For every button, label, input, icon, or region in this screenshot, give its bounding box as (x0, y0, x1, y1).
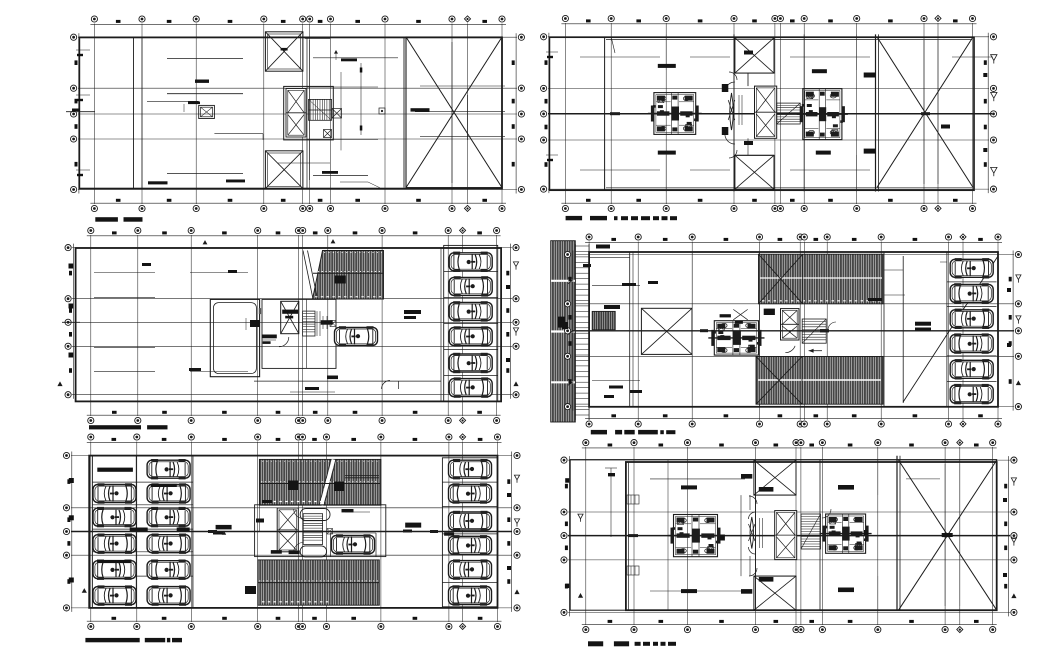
plan 4 door bowtie symbol (733, 309, 747, 323)
plan 5 small x marker (327, 529, 333, 535)
plan 4 interior partitions (630, 252, 947, 407)
plan 2 apartment beam lines (580, 57, 870, 170)
plan 1 top dimension bubbles (90, 16, 506, 24)
plan 6 X-bay label (942, 533, 953, 537)
plan 5 section line heavy (71, 530, 512, 533)
plan 6 lobby door arcs (749, 496, 832, 576)
plan 2 core lobby walls (735, 73, 774, 155)
plan 6 stair diagonal (801, 514, 821, 549)
plan 1 right X-braced open bay (404, 37, 505, 188)
plan 6 bottom core X-box (754, 576, 796, 610)
plan 5 top dimension bubbles (87, 434, 502, 442)
plan 5 upper ramp hatch (259, 459, 381, 505)
plan 4 title bars (591, 430, 676, 435)
plan 5 landing label (342, 509, 371, 512)
plan 1 small X-box lower (324, 130, 332, 138)
plan 4 horizontal grid lines (572, 255, 1014, 407)
plan 2 toilet cluster left (648, 93, 702, 135)
plan 1 left edge level marker 2 (76, 95, 90, 101)
plan 1 bottom elevator/duct X-box (265, 151, 303, 189)
plan 5 right parking stalls (442, 458, 497, 607)
plan 2 core side walls (747, 73, 749, 155)
plan 2 interior partition walls (605, 34, 857, 191)
plan 4 lower-left room lines (592, 381, 642, 399)
plan 4 small hatch block left (592, 305, 620, 330)
plan 5 left dimension bubbles (63, 452, 71, 612)
plan 2 stair treads (777, 103, 801, 124)
plan 6 right dimension bubbles (1004, 456, 1017, 616)
plan 5 left parking stall grid (92, 456, 192, 608)
plan 2 title bars (566, 216, 677, 220)
plan 3 right dimension bubbles (506, 244, 519, 399)
plan 2 stair diagonal (777, 103, 801, 124)
plan 3 stair up-bar (321, 316, 333, 329)
plan 4 strip labels (558, 264, 591, 329)
plan 6 vertical grid lines (586, 447, 993, 625)
plan 6 elevator shafts (775, 511, 797, 560)
plan 1 small X-box landing (332, 109, 342, 119)
plan 6 section line heavy (568, 534, 1010, 537)
plan 5 stair door arcs (294, 509, 304, 552)
plan 6 stair treads (801, 514, 821, 549)
plan 5 inter-stall label dashes (97, 484, 189, 563)
plan 5 elevator shafts (277, 508, 298, 552)
plan 5 corridor pill outlines (300, 509, 330, 557)
plan 6 title bars (588, 641, 676, 646)
plan 3 right parking stalls (444, 245, 498, 401)
plan 1 title bars (95, 217, 142, 222)
plan 1 left dimension bubbles (71, 33, 79, 193)
plan 6 toilet cluster left (668, 515, 724, 557)
plan 4 right dimension bubbles (1009, 251, 1022, 411)
plan 1 machine room leader dashes (184, 102, 200, 113)
plan 3 top dimension bubbles (87, 227, 501, 235)
plan 3 left bay beam dashes (94, 273, 248, 372)
plan 4 lower ramp X brace (756, 357, 802, 405)
plan 5 right dimension bubbles (507, 452, 520, 612)
plan 2 party wall to X bay (double) (876, 34, 879, 191)
plan 4 stair door arc (785, 322, 836, 353)
plan 1 lower-right beam line (313, 171, 368, 176)
plan 3 elevator X-box (281, 301, 299, 333)
plan 2 X-bay label dashes (864, 73, 950, 154)
plan 1 left wing partition wall (134, 37, 143, 188)
plan 1 vertical grid lines (94, 24, 502, 205)
plan 6 partition dark squares (720, 530, 868, 541)
plan 1 label dash in X bay (411, 108, 430, 111)
plan 4 ramp diagonal drive line (903, 256, 998, 402)
plan 6 horizontal grid lines (568, 460, 1010, 612)
plan 4 building outline (589, 252, 998, 407)
plan 1 left edge level marker 3 (76, 170, 90, 176)
plan 4 stair diagonal (802, 319, 826, 343)
plan 6 building outline (570, 460, 997, 611)
plan 4 stair treads (802, 319, 826, 343)
plan 6 left edge level markers (565, 478, 583, 598)
plan 5 car bay partition (331, 533, 377, 557)
plan 4 side ramp hatched strip (551, 241, 576, 422)
plan 6 toilet cluster right (820, 514, 872, 553)
plan 2 elevator shafts (755, 86, 777, 138)
plan 3 stair core walls (262, 299, 336, 368)
plan 6 vesica niche glyph (749, 517, 763, 549)
plan 3 entry door arc bottom (382, 381, 399, 390)
plan 3 bottom dimension bubbles (87, 411, 501, 424)
plan 4 section line heavy (572, 329, 1014, 332)
plan 1 building outline (79, 37, 502, 188)
plan 4 mid-left X-box (641, 308, 692, 354)
plan 3 top edge arrow markers (203, 239, 336, 244)
plan 2 right edge level markers (983, 55, 997, 177)
plan 1 interior beam line upper-right (313, 57, 398, 59)
plan 3 small x marker (330, 321, 336, 327)
plan 1 section arrow left (66, 109, 95, 112)
plan 5 left stall label bar (row 1) (97, 468, 133, 472)
plan 4 lower ramp hatch (756, 357, 883, 405)
plan 4 toilet cluster (708, 321, 764, 355)
plan 2 left edge level markers (546, 52, 558, 161)
plan 4 left dimension bubbles (on ramp strip) (565, 251, 573, 411)
plan 5 horizontal grid lines (71, 456, 512, 608)
plan 6 upper-left dim stub (605, 468, 617, 537)
plan 2 top core X-box (735, 38, 774, 73)
plan 6 unit label bars (681, 474, 854, 594)
plan 2 left dimension bubbles (541, 33, 549, 193)
plan 3 center aisle label (404, 310, 421, 319)
plan 1 stair treads (309, 99, 332, 120)
plan 1 stair mid rail (309, 99, 332, 120)
plan 5 parking cars left column A (93, 483, 136, 503)
plan 3 bottom wall dashes (290, 387, 335, 392)
plan 6 right X-braced open bay (899, 460, 997, 610)
plan 6 top core X-box (754, 460, 796, 495)
plan 3 lobby car (335, 326, 378, 346)
plan 6 bottom dimension bubbles (582, 620, 997, 633)
plan 4 upper beam stubs right (884, 262, 947, 270)
plan 5 mid-right aisle label (403, 523, 454, 536)
plan 5 center aisle label (213, 525, 232, 535)
plan 1 elevator shafts (286, 89, 306, 138)
plan 2 toilet cluster right (797, 89, 848, 140)
plan 5 right edge level markers (507, 475, 520, 594)
plan 2 vesica niche glyph (728, 93, 742, 130)
plan 3 stair treads (303, 311, 320, 336)
plan 6 party wall to X bay (double) (897, 456, 900, 611)
plan 4 bottom dimension bubbles (585, 414, 1002, 427)
plan 4 ramp side walkway ladder (575, 244, 589, 420)
plan 6 apartment beam lines (650, 479, 940, 591)
plan 4 top-left label above outline (596, 245, 610, 249)
plan 1 roof label blob left (195, 80, 209, 83)
plan 5 lower ramp hatch (245, 560, 379, 605)
plan 3 inner boundary line (254, 248, 441, 401)
plan 1 lower-left ledge lines (148, 174, 245, 185)
plan 3 horizontal grid lines (72, 248, 512, 395)
plan 3 small label blobs left bay (142, 263, 237, 371)
plan 5 stair treads (303, 514, 322, 545)
plan 1 left edge level marker (76, 50, 90, 56)
plan 5 vertical grid lines (91, 442, 498, 623)
plan 1 horizontal grid lines (78, 37, 517, 189)
plan 3 building outline (76, 248, 502, 401)
plan 2 horizontal grid lines (548, 37, 989, 189)
plan 3 parking cars right column (449, 252, 492, 272)
plan 2 section line heavy (548, 112, 992, 115)
plan 2 unit label bars (658, 64, 831, 155)
plan 5 left core dim arrows (256, 505, 264, 532)
plan 5 title bars (85, 638, 182, 642)
plan 4 room label blobs (720, 309, 775, 318)
plan 2 building outline (549, 37, 974, 190)
plan 6 top dimension bubbles (582, 439, 997, 447)
plan 2 vertical grid lines (565, 23, 972, 204)
plan 3 right edge level markers (506, 262, 519, 386)
plan 5 core lobby walls (255, 505, 386, 557)
plan 4 top dimension bubbles (585, 234, 1002, 242)
plan 4 right edge level markers (1007, 275, 1021, 385)
plan 2 right dimension bubbles (984, 33, 997, 193)
plan 6 right edge level markers (1003, 478, 1017, 598)
plan 4 vertical grid lines (589, 242, 998, 421)
plan 6 core lobby walls (754, 495, 796, 576)
plan 5 lobby car (332, 534, 375, 554)
plan 2 shaft label ticks (722, 51, 753, 146)
plan 1 interior beam line upper-left (167, 58, 243, 60)
plan 3 equipment dashes near core (246, 318, 338, 379)
plan 1 stair core walls (284, 37, 341, 188)
plan 3 title bars (89, 425, 168, 429)
plan 1 machine room rect (147, 101, 263, 140)
plan 3 left section stub (62, 321, 80, 323)
plan 4 right parking stalls (947, 282, 997, 382)
plan 3 ramp label blob (335, 276, 346, 284)
plan 1 roof label arrow right (334, 50, 357, 61)
plan 4 lobby arrow (809, 349, 822, 353)
plan 1 right dimension bubbles (512, 33, 525, 193)
plan 3 left dimension bubbles (65, 244, 73, 399)
plan 2 lobby door arcs (725, 72, 737, 158)
plan 1 lower-mid step lines (278, 163, 380, 188)
plan 3 water tank room double wall (210, 299, 261, 376)
plan 4 upper ramp hatch (759, 254, 884, 304)
plan 4 elevator shafts (781, 309, 800, 340)
plan 6 core side walls (741, 495, 750, 576)
plan 6 wall fixture grids left (627, 495, 639, 575)
plan 3 vertical grid lines (91, 235, 497, 416)
plan 4 hatch edge label (868, 295, 905, 301)
plan 3 left edge level markers (57, 264, 73, 387)
plan 2 bottom core X-box (735, 155, 774, 189)
plan 4 upper ramp X brace (759, 254, 803, 304)
plan 6 interior partitions (668, 460, 878, 610)
plan 4 parking cars right column (950, 258, 993, 278)
plan 5 bottom dimension bubbles (87, 617, 502, 630)
plan 1 interior beam line mid-left (167, 93, 243, 95)
plan 5 parking cars right column (449, 459, 492, 479)
plan 1 top elevator/duct X-box (265, 32, 303, 71)
plan 4 upper-left room lines (589, 258, 658, 286)
plan 2 bottom dimension bubbles (561, 199, 976, 212)
plan 4 aisle label dashes (915, 322, 931, 331)
plan 1 wall marker square (379, 108, 385, 114)
plan 2 right X-braced open bay (877, 37, 993, 187)
plan 2 top dimension bubbles (561, 15, 976, 23)
plan 5 left edge level markers (69, 478, 87, 593)
plan 3 entry ramp hatch (303, 251, 384, 300)
plan 1 bottom dimension bubbles (90, 199, 506, 212)
plan 5 core label blobs (262, 500, 300, 554)
plan 1 core dimension lines (307, 63, 378, 140)
plan 5 row stub lines center (193, 508, 442, 555)
plan 5 parking cars left column B (147, 459, 190, 479)
plan 6 left dimension bubbles (561, 456, 569, 616)
plan 3 stair door arcs (279, 337, 289, 347)
plan 5 building outline (89, 456, 497, 608)
